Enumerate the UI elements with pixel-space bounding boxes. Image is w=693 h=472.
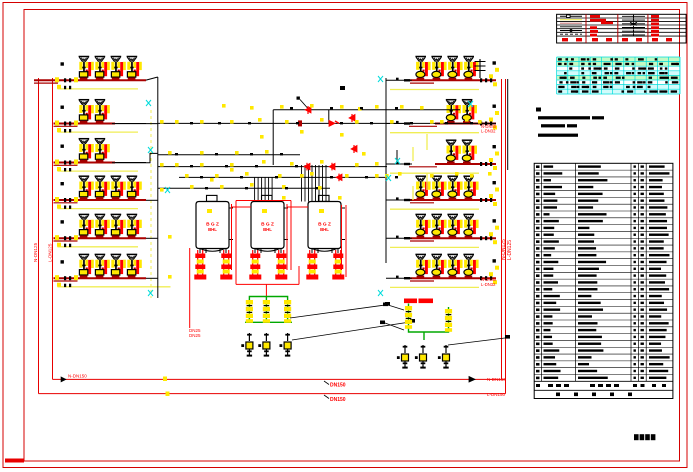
valve label tag [297, 97, 300, 100]
row L5 connector [146, 237, 158, 239]
return branch pipe row L5 [54, 237, 147, 239]
red expansion line [189, 248, 191, 328]
branch yellow tags row R3 [489, 158, 493, 162]
branch shutoff fitting row L2 [61, 106, 64, 109]
svg-text:L-DN125: L-DN125 [48, 243, 53, 262]
legend symbols column 1 [560, 15, 582, 34]
bottom return main pipe [53, 378, 506, 380]
red control valve V1b [329, 120, 335, 126]
stub valve ticks row R5 [396, 236, 399, 239]
branch connector ticks row R2 [480, 122, 482, 126]
makeup pump M2 [415, 345, 427, 369]
fan coil units row L3 [79, 139, 110, 163]
material table footer symbols [556, 393, 632, 397]
right black riser [507, 79, 509, 170]
fan coil units row L4 [79, 176, 142, 200]
dark red fitting on header B [298, 120, 302, 126]
return branch pipe row L6 [54, 277, 147, 279]
red control valve V3 [351, 146, 357, 153]
yellow condensate line row R5 [390, 246, 479, 248]
legend bottom row (red text) [562, 38, 672, 41]
yellow condensate line row L2 [58, 131, 139, 133]
tank B3 right valve train [332, 250, 344, 280]
branch connector ticks row R6 [480, 276, 482, 280]
svg-text:DN150: DN150 [330, 383, 346, 389]
pump header bottom (green) [245, 321, 292, 323]
tank B3 yellow tag [319, 209, 324, 213]
tank B3 [308, 202, 341, 249]
branch shutoff fitting row R6 [493, 259, 496, 262]
branch yellow tags row L5 [55, 235, 59, 240]
legend symbols column 3 [622, 15, 645, 37]
red link pipe between tanks B2-B3 [287, 206, 308, 208]
tank B1 right valve train [220, 250, 232, 280]
right riser labels (rotated) [501, 239, 507, 260]
tank B3 bottom curve [312, 249, 337, 252]
yellow condensate line row R1 [390, 89, 479, 91]
makeup valve stack A [405, 306, 412, 329]
main label left [61, 377, 66, 382]
tank B1 neck [207, 195, 218, 201]
supply branch pipe row R5 [410, 240, 434, 242]
pump header top (green) [249, 297, 287, 323]
branch connector ticks row L2 [64, 122, 66, 126]
branch feed stub row R5 [386, 237, 412, 239]
stub valve ticks row R3 [396, 161, 399, 164]
yellow condensate line row L3 [58, 170, 139, 172]
yellow condensate line row L4 [58, 208, 139, 210]
pump P3 [280, 333, 292, 357]
supply branch pipe row R4 [410, 202, 434, 204]
red riser pair at tank B3 [341, 205, 343, 270]
condensate drain jog R3-R4 [426, 173, 428, 190]
svg-text:L-DN32: L-DN32 [481, 282, 496, 287]
condensate drain jog R2-R3 [426, 134, 428, 150]
material table header row [536, 384, 666, 387]
branch shutoff fitting row R2 [493, 105, 496, 108]
tank B1 [196, 202, 229, 249]
branch shutoff fitting row R4 [493, 181, 496, 184]
yellow condensate line row R6 [390, 286, 479, 288]
leader label on return main [324, 381, 329, 385]
right feed riser [385, 78, 387, 263]
fan coil units row L1 [79, 57, 142, 81]
header pipe B [158, 122, 496, 124]
return branch pipe row R4 [410, 199, 496, 201]
right red riser R-b [505, 79, 507, 394]
svg-text:DN150: DN150 [330, 397, 346, 403]
tank B3 left valve train [306, 250, 318, 280]
branch yellow tags row R2 [489, 118, 493, 122]
tank B3 bottom nozzle ticks [312, 249, 338, 254]
label riser GL1 [33, 242, 38, 262]
branch connector ticks row R4 [480, 198, 482, 202]
svg-text:N-DN150: N-DN150 [68, 374, 87, 379]
leader to pump label 2 [292, 322, 410, 340]
right red riser R-a [501, 79, 503, 379]
riser GL1 (left chilled supply main) [38, 78, 40, 394]
legend text column 4 (red) [651, 15, 659, 37]
branch connector ticks row R1 [480, 78, 482, 82]
makeup green branch [423, 332, 425, 340]
red link pipe between tanks B1-B2 [232, 206, 252, 208]
return branch pipe row R5 [410, 237, 496, 239]
supply branch pipe row L6 [54, 280, 78, 282]
drain elbow riser [396, 150, 398, 163]
material schedule table [534, 163, 673, 398]
tank B2 bottom nozzle ticks [255, 249, 281, 254]
branch connector ticks row L3 [64, 161, 66, 165]
fan coil units row L6 [79, 254, 142, 278]
supply branch pipe row L1 [34, 82, 58, 84]
material table row content [536, 165, 670, 379]
branch yellow tags row R5 [489, 232, 493, 236]
branch pipe continuation row L2 [115, 123, 146, 125]
fan coil units row R1 [415, 57, 478, 81]
branch yellow tags row L2 [55, 121, 59, 126]
makeup water tank label [404, 299, 417, 304]
fan coil units row L5 [79, 214, 142, 238]
tank B2 [251, 202, 284, 249]
return branch pipe row R2 [435, 123, 496, 125]
row R1 end connector [479, 59, 481, 78]
tank B3 neck [319, 195, 330, 201]
bottom-left red stamp [5, 459, 24, 463]
branch feed stub row R6 [386, 277, 412, 279]
header pipe A [273, 109, 460, 111]
row L3 connector step [112, 153, 158, 162]
row L6 connector [146, 277, 158, 279]
branch connector ticks row L5 [64, 236, 66, 240]
junction tag on return main [163, 377, 167, 382]
tank B1 yellow tag [207, 209, 212, 213]
red control valve V4 [304, 163, 310, 170]
branch connector ticks row L1 [64, 78, 66, 82]
red drop to pump header [265, 284, 267, 296]
legend table frame [557, 14, 687, 43]
note line 1 [538, 116, 604, 137]
supply branch pipe row R1 [410, 82, 434, 84]
red control valve V6 [336, 174, 342, 181]
red pipe loop above tanks [236, 200, 291, 202]
branch yellow tags row L4 [55, 197, 59, 202]
svg-text:L-DN125: L-DN125 [507, 240, 513, 260]
header pipe C [158, 154, 300, 156]
branch yellow tags row L3 [55, 160, 59, 165]
branch shutoff fitting row L5 [61, 220, 64, 223]
branch feed stub row R3 [386, 163, 412, 165]
row L1 connector to riser [146, 77, 158, 80]
stub valve ticks row R1 [396, 78, 399, 81]
black pipe fittings center [175, 107, 473, 189]
tank B2 neck [262, 195, 273, 201]
branch connector ticks row L4 [64, 198, 66, 202]
header pipe E [179, 176, 387, 178]
red collector below tanks [236, 283, 299, 285]
return branch pipe row R3 [435, 163, 496, 165]
fan coil units row R2 [446, 100, 477, 124]
red control valve V1 [305, 107, 311, 114]
tank B3 side nozzles [341, 207, 345, 209]
branch feed stub row R4 [386, 199, 412, 201]
yellow condensate line row R4 [390, 208, 479, 210]
makeup leader 2 [385, 323, 404, 330]
yellow pipe tags center [160, 104, 492, 279]
valve stack P2 [263, 300, 270, 323]
valve stack P3 [284, 300, 291, 323]
flow arrow on main [469, 377, 475, 383]
branch connector ticks row L6 [64, 276, 66, 280]
tank B1 bottom nozzle ticks [200, 249, 226, 254]
tank B1 left valve train [194, 250, 206, 280]
makeup leader 1 [388, 305, 404, 310]
legend table grid [557, 14, 687, 43]
return branch pipe row L1 [34, 79, 146, 81]
branch yellow tags row L1 [55, 77, 59, 82]
header pipe F [158, 187, 330, 189]
drawing title [634, 434, 655, 440]
yellow condensate line row L5 [58, 246, 139, 248]
supply branch pipe row R6 [410, 280, 434, 282]
leader label on supply main [324, 395, 329, 399]
yellow condensate line row R3 [390, 172, 479, 174]
makeup leader 3 [448, 338, 505, 345]
supply branch pipe row L3 [54, 164, 78, 166]
drop bundle 1 to tanks [255, 177, 273, 201]
red riser right of tank B2 [286, 204, 288, 270]
yellow tag line along left riser [150, 110, 152, 298]
svg-text:BHL: BHL [320, 227, 329, 232]
makeup green riser A [409, 304, 449, 333]
svg-text:L-DN32: L-DN32 [481, 129, 496, 134]
branch pipe continuation row L3 [115, 162, 146, 164]
fan coil units row R3 [446, 140, 477, 164]
branch yellow tags row R1 [489, 74, 493, 78]
stub valve ticks row R6 [396, 276, 399, 279]
branch yellow tags row L6 [55, 275, 59, 280]
branch shutoff fitting row R3 [493, 145, 496, 148]
red control valve V5 [329, 163, 335, 170]
drop bundle 2 to tanks [302, 165, 327, 202]
notes heading [536, 108, 541, 112]
tank B2 yellow tag [262, 209, 267, 213]
makeup pump M1 [397, 345, 409, 369]
equipment label tag 2 [340, 86, 345, 90]
tank B2 side nozzles [284, 207, 288, 209]
cyan table text blobs [558, 58, 679, 93]
legend text column 2 (red) [590, 15, 613, 37]
riser GL2 (left chilled return main) [52, 78, 54, 379]
branch shutoff fitting row R5 [493, 219, 496, 222]
cyan instrument marks [146, 76, 473, 296]
fan coil units row R4 [415, 176, 478, 200]
branch shutoff fitting row L6 [61, 260, 64, 263]
equipment data table (cyan) [557, 57, 680, 94]
makeup pump M3 [438, 345, 450, 369]
red riser at tank B2 [290, 201, 292, 271]
pump suction line mid (green) [265, 297, 267, 323]
tank B2 bottom curve [255, 249, 280, 252]
leader to pump label 1 [290, 305, 385, 318]
branch connector ticks row R5 [480, 236, 482, 240]
valve stack P1 [246, 300, 253, 323]
pump P2 [258, 333, 270, 357]
yellow condensate line row R2 [390, 132, 479, 134]
supply branch pipe row R3 [409, 166, 437, 168]
junction tag on supply main [166, 392, 170, 397]
return branch pipe row R1 [410, 79, 496, 81]
supply branch pipe row L5 [54, 240, 78, 242]
return branch pipe row L4 [54, 199, 147, 201]
yellow condensate line row L6 [58, 286, 139, 288]
branch feed stub row R1 [386, 79, 412, 81]
header pipe D [158, 166, 387, 168]
red control valve V2 [349, 115, 355, 122]
stub valve ticks row R2 [396, 121, 399, 124]
row L4 connector [146, 199, 158, 201]
svg-text:BHL: BHL [263, 227, 272, 232]
makeup valve stack B [445, 309, 452, 332]
fan coil units row R5 [415, 214, 478, 238]
fan coil units row L2 [79, 100, 110, 124]
supply branch pipe row L4 [54, 202, 78, 204]
yellow condensate line row L1 [58, 88, 139, 90]
svg-text:N-DN125: N-DN125 [33, 242, 38, 262]
branch feed stub row R2 [386, 123, 412, 125]
branch shutoff fitting row L3 [61, 145, 64, 148]
branch shutoff fitting row R1 [493, 61, 496, 64]
bottom supply main pipe [39, 393, 506, 395]
svg-text:L-DN150: L-DN150 [487, 392, 506, 397]
fan coil units row R6 [415, 254, 478, 278]
return branch pipe row R6 [410, 277, 496, 279]
return branch pipe row L2 [54, 123, 116, 125]
red riser at tank B1 [235, 201, 237, 285]
supply branch pipe row R2 [409, 125, 437, 127]
branch shutoff fitting row L4 [61, 182, 64, 185]
stub valve ticks row R4 [396, 197, 399, 200]
branch yellow tags row R4 [489, 194, 493, 198]
tank B2 right valve train [275, 250, 287, 280]
pump P1 [241, 333, 253, 357]
supply branch pipe row L2 [54, 125, 78, 127]
red riser right of tank B1 [231, 204, 233, 270]
tank B1 bottom curve [200, 249, 225, 252]
return branch pipe row L3 [54, 162, 116, 164]
branch connector ticks row R3 [480, 162, 482, 166]
branch yellow tags row R6 [489, 272, 493, 276]
svg-text:BHL: BHL [208, 227, 217, 232]
tank B1 side nozzles [229, 207, 233, 209]
label riser GL2 [48, 243, 53, 262]
row L6 condensate extension [138, 286, 171, 288]
branch shutoff fitting row L1 [61, 62, 64, 65]
row L2 connector to riser [112, 123, 158, 125]
left block service riser [157, 77, 159, 298]
svg-text:N-DN150: N-DN150 [487, 377, 506, 382]
tank B2 left valve train [249, 250, 261, 280]
svg-text:DN25: DN25 [189, 333, 201, 338]
